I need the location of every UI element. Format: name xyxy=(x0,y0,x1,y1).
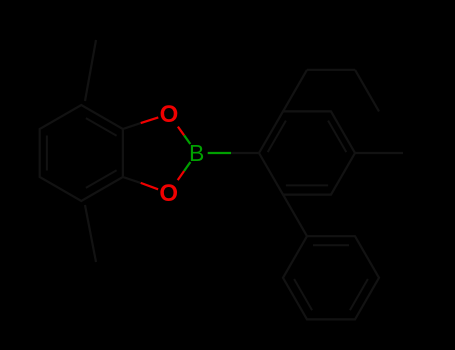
bond C9-C10 (down-right) xyxy=(355,70,379,112)
svg-text:O: O xyxy=(159,180,178,207)
aromatic inner line C3'=C4' xyxy=(328,121,346,153)
bond C7a-O2 (oxygen half, red) xyxy=(141,183,158,189)
bond C3a-O1 (carbon half, gray) xyxy=(123,123,141,129)
bond O2-B (oxygen half, red) xyxy=(178,171,184,180)
para substituent bond C4'-C11 xyxy=(355,152,403,154)
bond B-C1' (boron half, green) xyxy=(208,152,231,154)
aromatic inner line lower ring b xyxy=(350,279,368,310)
bond O1-B (oxygen half, red) xyxy=(178,127,184,136)
aromatic inner line C7=C7a xyxy=(86,170,117,188)
svg-text:B: B xyxy=(189,140,204,166)
methyl spur on C4 (up) xyxy=(85,40,96,101)
benzene ring (catechol) C3a-C4-C5-C6-C7-C7a xyxy=(40,105,123,201)
aromatic inner line C5'=C6' xyxy=(286,184,328,186)
bond C7a-O2 (carbon half, gray) xyxy=(123,177,141,183)
ortho substituent bond C2'-C8 (up) xyxy=(283,70,307,112)
bond O1-B (boron half, green) xyxy=(184,135,190,144)
ortho substituent bond C6'-C12 (down) xyxy=(283,195,307,237)
aromatic inner line lower ring a xyxy=(313,244,349,246)
svg-text:O: O xyxy=(160,101,179,128)
bond C8-C9 (top horizontal) xyxy=(307,69,355,71)
aromatic inner line C5=C6 xyxy=(46,136,48,171)
bond O2-B (boron half, green) xyxy=(184,162,190,171)
bond B-C1' (carbon half, gray) xyxy=(231,152,259,154)
aromatic inner line C3a=C4 xyxy=(86,118,117,136)
lower phenyl ring C12-C17 xyxy=(283,236,379,319)
aromatic inner line lower ring c xyxy=(294,279,312,310)
aryl ring C1'-C6' xyxy=(259,111,355,194)
aromatic inner line C1'=C2' xyxy=(268,121,286,153)
methyl spur on C7 (down) xyxy=(85,205,96,262)
bond C3a-O1 (oxygen half, red) xyxy=(141,117,159,123)
